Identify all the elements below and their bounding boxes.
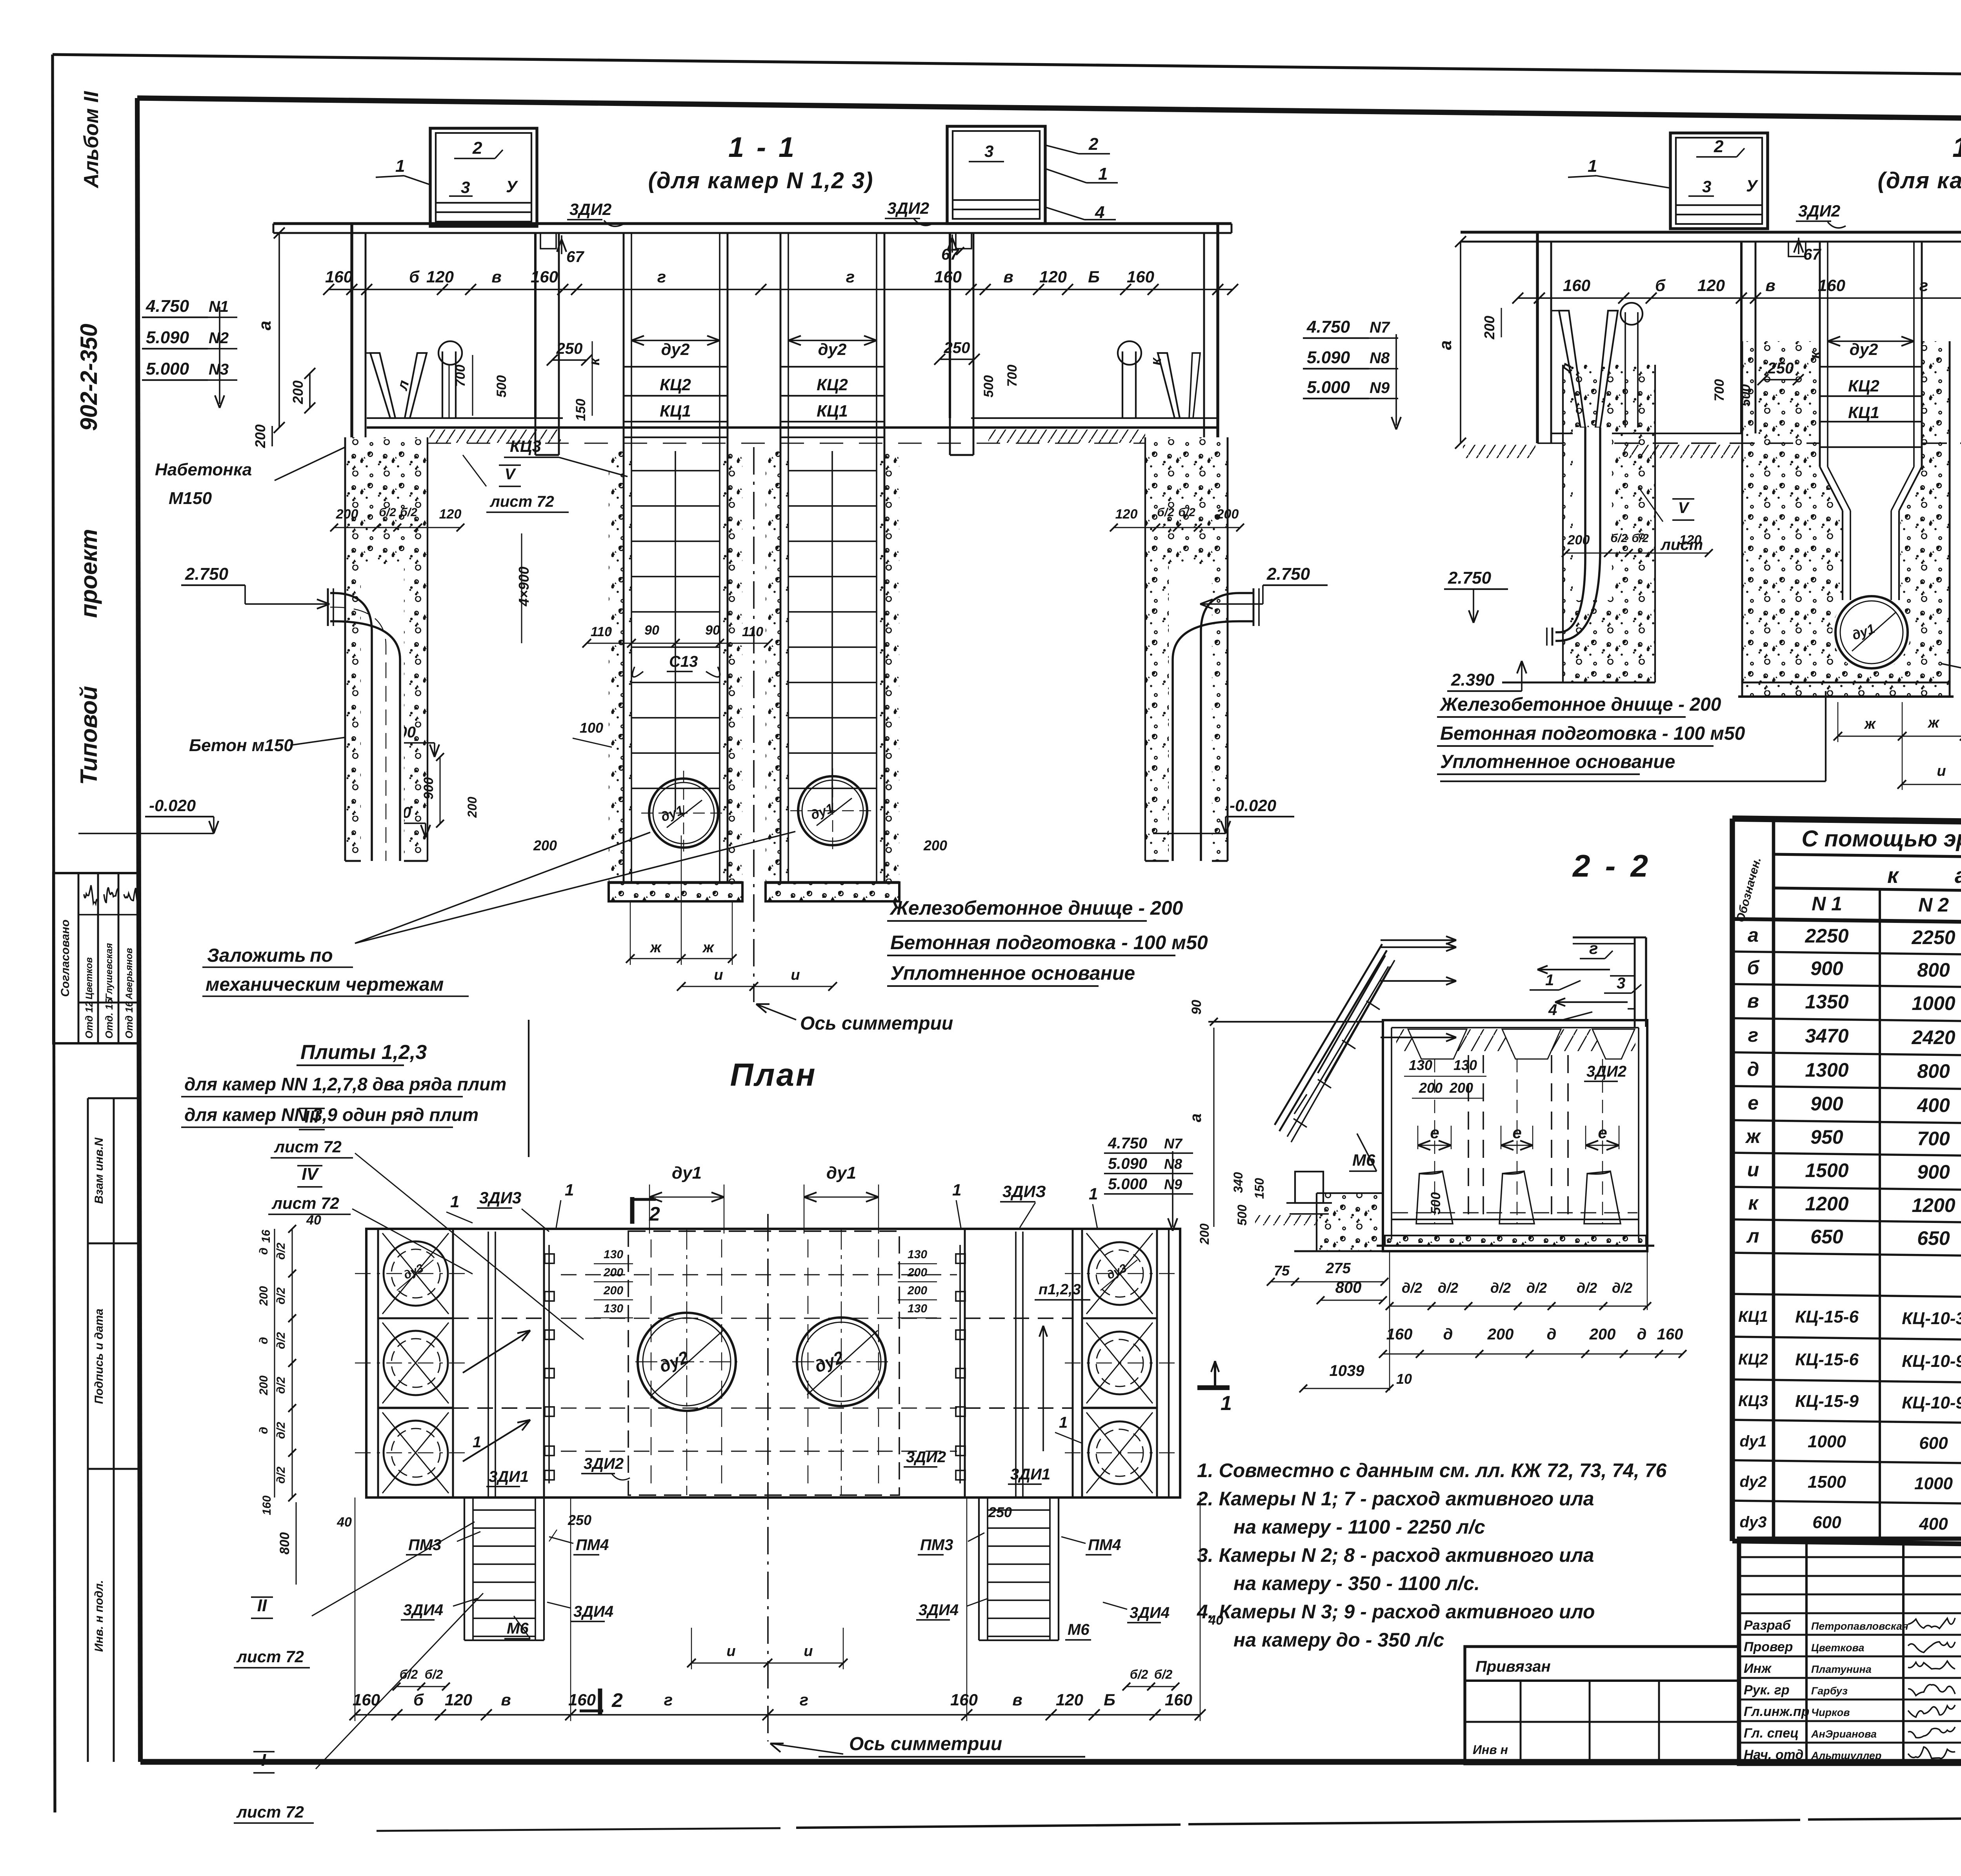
svg-text:902-2-350: 902-2-350	[76, 324, 102, 431]
svg-text:3ДИ2: 3ДИ2	[1586, 1063, 1626, 1080]
svg-text:в: в	[1003, 267, 1013, 286]
svg-text:Б: Б	[1088, 267, 1100, 286]
svg-text:N 2: N 2	[1918, 894, 1949, 916]
svg-text:д: д	[1747, 1058, 1759, 1080]
svg-text:д/2: д/2	[1490, 1280, 1511, 1296]
svg-text:200: 200	[1449, 1080, 1473, 1096]
svg-text:КЦ2: КЦ2	[660, 375, 691, 394]
svg-text:У: У	[1746, 177, 1759, 195]
svg-text:в: в	[501, 1690, 511, 1709]
svg-text:10: 10	[1396, 1371, 1412, 1387]
svg-text:200: 200	[603, 1284, 623, 1297]
svg-text:Ось симметрии: Ось симметрии	[849, 1734, 1002, 1754]
svg-text:150: 150	[1252, 1178, 1266, 1199]
svg-text:д/2: д/2	[275, 1467, 287, 1484]
svg-text:КЦ3: КЦ3	[1738, 1392, 1768, 1410]
svg-text:Аверьянов: Аверьянов	[124, 948, 135, 1000]
svg-text:Инв. н подл.: Инв. н подл.	[93, 1580, 106, 1652]
svg-text:400: 400	[1917, 1094, 1950, 1116]
svg-text:на камеру до - 350 л/с: на камеру до - 350 л/с	[1233, 1629, 1444, 1651]
svg-text:Ось симметрии: Ось симметрии	[800, 1013, 953, 1034]
svg-text:130: 130	[1453, 1057, 1477, 1073]
svg-text:120: 120	[1697, 276, 1725, 295]
svg-text:5.000: 5.000	[1307, 378, 1350, 397]
svg-text:б: б	[1655, 276, 1666, 295]
svg-text:лист 72: лист 72	[236, 1803, 304, 1821]
svg-text:160: 160	[1127, 267, 1154, 286]
svg-text:и: и	[804, 1643, 813, 1659]
svg-text:800: 800	[1917, 1060, 1950, 1082]
svg-text:к: к	[1748, 1192, 1759, 1214]
svg-text:л: л	[1746, 1225, 1759, 1247]
svg-text:900: 900	[1810, 1093, 1843, 1115]
svg-text:700: 700	[453, 365, 468, 387]
svg-text:для камер NN 3,9 один ряд плит: для камер NN 3,9 один ряд плит	[184, 1104, 478, 1125]
svg-text:1: 1	[450, 1192, 459, 1211]
svg-text:Взам инв.N: Взам инв.N	[93, 1137, 106, 1204]
svg-text:г: г	[657, 267, 666, 286]
svg-text:и: и	[1937, 763, 1946, 779]
svg-text:1200: 1200	[1805, 1193, 1848, 1215]
svg-text:б: б	[413, 1690, 424, 1709]
svg-text:2 - 2: 2 - 2	[1572, 848, 1651, 883]
svg-text:N1: N1	[209, 298, 229, 315]
svg-text:КЦ1: КЦ1	[1848, 403, 1879, 422]
svg-text:160: 160	[353, 1690, 380, 1709]
svg-text:б/2: б/2	[1632, 532, 1649, 545]
svg-text:1200: 1200	[1912, 1194, 1955, 1216]
svg-text:Нач. отд: Нач. отд	[1744, 1747, 1803, 1762]
svg-text:3: 3	[1617, 975, 1625, 992]
svg-text:б/2: б/2	[1154, 1667, 1173, 1681]
svg-text:ду2: ду2	[661, 340, 690, 358]
svg-text:Альбом II: Альбом II	[80, 91, 103, 189]
svg-text:III: III	[305, 1107, 319, 1126]
svg-text:160: 160	[1657, 1326, 1683, 1343]
svg-text:и: и	[714, 967, 723, 983]
svg-text:Отд. 15: Отд. 15	[103, 998, 115, 1039]
svg-text:д/2: д/2	[1438, 1280, 1458, 1296]
svg-text:3ДИ4: 3ДИ4	[1130, 1604, 1170, 1621]
svg-text:200: 200	[603, 1266, 623, 1279]
svg-text:У: У	[506, 177, 518, 196]
svg-text:-0.020: -0.020	[149, 796, 196, 815]
svg-text:Цветкова: Цветкова	[1811, 1642, 1865, 1654]
svg-text:лист: лист	[1660, 536, 1703, 553]
svg-text:Инж: Инж	[1744, 1661, 1772, 1676]
svg-text:200: 200	[1487, 1326, 1514, 1343]
svg-text:200: 200	[1589, 1326, 1616, 1343]
svg-text:3ДИ2: 3ДИ2	[1798, 202, 1840, 220]
svg-text:б/2: б/2	[1130, 1667, 1148, 1681]
svg-text:120: 120	[1056, 1690, 1083, 1709]
svg-text:650: 650	[1917, 1227, 1950, 1249]
svg-text:250: 250	[944, 339, 970, 357]
svg-text:160: 160	[325, 267, 353, 286]
svg-text:160: 160	[1563, 276, 1590, 295]
svg-text:1: 1	[1221, 1392, 1232, 1415]
svg-text:1300: 1300	[1805, 1059, 1848, 1081]
svg-text:2. Камеры N 1; 7 - расход акти: 2. Камеры N 1; 7 - расход активного ила	[1197, 1488, 1594, 1510]
svg-text:б: б	[1747, 957, 1760, 979]
svg-text:3. Камеры N 2; 8 - расход акти: 3. Камеры N 2; 8 - расход активного ила	[1197, 1544, 1594, 1566]
svg-text:г: г	[1589, 939, 1598, 957]
svg-text:План: План	[730, 1057, 817, 1093]
svg-text:ж: ж	[1864, 716, 1876, 732]
svg-text:в: в	[1012, 1690, 1022, 1709]
svg-text:г: г	[800, 1690, 808, 1709]
svg-text:проект: проект	[76, 529, 102, 618]
svg-text:67: 67	[566, 248, 584, 266]
svg-text:130: 130	[908, 1248, 927, 1261]
svg-text:Согласовано: Согласовано	[59, 919, 72, 997]
svg-text:N3: N3	[209, 361, 229, 378]
svg-text:130: 130	[908, 1302, 927, 1315]
svg-text:1039: 1039	[1330, 1362, 1365, 1379]
svg-text:1: 1	[1545, 972, 1554, 989]
svg-text:40: 40	[1208, 1613, 1223, 1628]
svg-text:КЦ-15-6: КЦ-15-6	[1795, 1307, 1859, 1326]
svg-text:ПМ4: ПМ4	[576, 1536, 609, 1554]
svg-text:ж: ж	[1745, 1125, 1761, 1147]
svg-text:130: 130	[604, 1248, 623, 1261]
svg-text:V: V	[1678, 499, 1690, 517]
svg-text:1: 1	[952, 1181, 961, 1199]
svg-text:700: 700	[1917, 1128, 1950, 1150]
svg-text:400: 400	[1919, 1514, 1948, 1534]
svg-text:а: а	[1748, 924, 1759, 946]
svg-text:I: I	[261, 1750, 266, 1770]
svg-text:(для камер N 7,8,9): (для камер N 7,8,9)	[1878, 168, 1961, 193]
svg-text:IV: IV	[302, 1165, 319, 1184]
svg-text:3470: 3470	[1805, 1025, 1848, 1047]
svg-text:16: 16	[260, 1230, 273, 1243]
svg-text:д/2: д/2	[275, 1287, 287, 1305]
svg-text:КЦ1: КЦ1	[1738, 1308, 1768, 1325]
svg-text:Уплотненное основание: Уплотненное основание	[1440, 751, 1675, 772]
svg-text:лист 72: лист 72	[236, 1647, 304, 1666]
svg-text:КЦ2: КЦ2	[817, 375, 848, 394]
svg-text:Чирков: Чирков	[1811, 1707, 1850, 1718]
svg-text:100: 100	[580, 720, 603, 736]
svg-text:д/2: д/2	[275, 1377, 287, 1394]
svg-text:160: 160	[568, 1690, 596, 1709]
svg-text:40: 40	[337, 1515, 352, 1530]
svg-text:3ДИ1: 3ДИ1	[1010, 1466, 1050, 1483]
svg-text:2.750: 2.750	[1266, 564, 1310, 584]
svg-text:д/2: д/2	[1402, 1280, 1422, 1296]
svg-text:5.090: 5.090	[146, 328, 189, 347]
svg-text:КЦ2: КЦ2	[1738, 1351, 1768, 1368]
svg-text:V: V	[505, 466, 517, 483]
svg-text:к: к	[1148, 357, 1164, 366]
svg-text:Рук. гр: Рук. гр	[1744, 1683, 1790, 1698]
svg-text:160: 160	[1818, 276, 1845, 295]
svg-text:4×900: 4×900	[516, 566, 532, 606]
svg-text:Платунина: Платунина	[1811, 1663, 1872, 1675]
svg-text:Железобетонное днище - 200: Железобетонное днище - 200	[1439, 694, 1721, 715]
svg-text:в: в	[1765, 276, 1775, 295]
svg-text:Подпись и дата: Подпись и дата	[93, 1308, 106, 1404]
svg-text:д/2: д/2	[275, 1422, 287, 1439]
svg-text:275: 275	[1325, 1260, 1351, 1277]
svg-text:1 - 1: 1 - 1	[1952, 132, 1961, 163]
svg-text:2420: 2420	[1911, 1026, 1955, 1048]
svg-text:500: 500	[981, 375, 996, 398]
svg-text:5.000: 5.000	[146, 359, 189, 378]
svg-text:N9: N9	[1370, 379, 1390, 397]
svg-text:С13: С13	[669, 653, 698, 670]
svg-text:800: 800	[277, 1532, 292, 1555]
svg-text:200: 200	[257, 1286, 270, 1306]
svg-text:Уплотненное основание: Уплотненное основание	[890, 962, 1135, 984]
svg-text:д: д	[1637, 1326, 1647, 1343]
svg-text:Глушевская: Глушевская	[104, 943, 115, 999]
svg-text:2: 2	[1088, 135, 1099, 154]
svg-text:Бетонная подготовка - 100 м50: Бетонная подготовка - 100 м50	[1440, 723, 1745, 744]
svg-text:3: 3	[1702, 177, 1711, 196]
svg-text:160: 160	[260, 1496, 273, 1515]
svg-text:КЦ-10-3: КЦ-10-3	[1902, 1309, 1961, 1328]
svg-text:е: е	[1748, 1092, 1759, 1114]
svg-text:КЦ-10-9: КЦ-10-9	[1902, 1393, 1961, 1412]
svg-text:75: 75	[1274, 1263, 1290, 1279]
svg-text:160: 160	[950, 1690, 978, 1709]
svg-text:на камеру - 350 - 1100 л/с.: на камеру - 350 - 1100 л/с.	[1233, 1572, 1480, 1594]
svg-text:N2: N2	[209, 329, 229, 347]
svg-text:М150: М150	[169, 489, 212, 508]
svg-text:АнЭрианова: АнЭрианова	[1811, 1728, 1877, 1740]
svg-text:а: а	[1187, 1114, 1204, 1122]
svg-text:N 1: N 1	[1812, 893, 1842, 915]
svg-text:и: и	[791, 967, 800, 983]
svg-text:700: 700	[1712, 379, 1727, 402]
svg-text:Отд 16: Отд 16	[123, 1001, 135, 1039]
svg-text:г: г	[846, 267, 855, 286]
svg-text:в: в	[1747, 990, 1759, 1012]
svg-text:в: в	[491, 267, 501, 286]
svg-text:ПМ4: ПМ4	[1088, 1536, 1121, 1554]
svg-text:ж: ж	[702, 939, 715, 956]
svg-text:N7: N7	[1164, 1135, 1183, 1152]
svg-text:б/2: б/2	[400, 1667, 418, 1681]
svg-text:2250: 2250	[1911, 926, 1955, 948]
svg-text:лист 72: лист 72	[271, 1194, 339, 1212]
svg-text:Инв н: Инв н	[1473, 1743, 1508, 1757]
svg-text:340: 340	[1231, 1172, 1245, 1193]
svg-text:ду1: ду1	[826, 1163, 856, 1183]
svg-text:п1,2,3: п1,2,3	[1039, 1281, 1081, 1298]
svg-text:500: 500	[494, 375, 509, 398]
svg-text:1: 1	[1098, 164, 1108, 184]
svg-text:-0.020: -0.020	[1230, 796, 1276, 815]
svg-text:механическим чертежам: механическим чертежам	[206, 974, 444, 995]
svg-text:90: 90	[644, 623, 659, 638]
svg-text:к: к	[586, 357, 603, 366]
svg-text:250: 250	[988, 1504, 1012, 1520]
svg-text:160: 160	[1165, 1690, 1192, 1709]
svg-text:на камеру - 1100 - 2250 л/с: на камеру - 1100 - 2250 л/с	[1233, 1516, 1485, 1538]
svg-text:(для камер N 1,2 3): (для камер N 1,2 3)	[648, 168, 874, 193]
svg-text:200: 200	[290, 380, 306, 404]
svg-text:900: 900	[1810, 957, 1843, 979]
svg-text:ду2: ду2	[1850, 340, 1878, 358]
svg-text:5.000: 5.000	[1108, 1175, 1147, 1193]
svg-text:КЦ3: КЦ3	[510, 437, 541, 455]
svg-text:Отд 12: Отд 12	[83, 1001, 95, 1039]
svg-text:dy3: dy3	[1740, 1514, 1767, 1531]
svg-text:dy1: dy1	[1740, 1433, 1767, 1450]
svg-text:2: 2	[611, 1689, 623, 1711]
svg-text:Гл.инж.пр: Гл.инж.пр	[1744, 1704, 1810, 1719]
svg-text:3ДИЗ: 3ДИЗ	[1002, 1182, 1046, 1201]
svg-text:Гарбуз: Гарбуз	[1811, 1685, 1848, 1697]
svg-text:3ДИ4: 3ДИ4	[919, 1601, 959, 1619]
svg-text:N7: N7	[1370, 319, 1390, 336]
svg-text:3: 3	[461, 178, 470, 197]
svg-text:1 - 1: 1 - 1	[728, 132, 797, 163]
svg-text:150: 150	[573, 399, 588, 421]
svg-text:1: 1	[1588, 156, 1597, 176]
svg-text:200: 200	[252, 424, 268, 448]
svg-text:2: 2	[649, 1203, 660, 1225]
svg-text:1500: 1500	[1805, 1159, 1848, 1181]
svg-text:90: 90	[1189, 1000, 1204, 1015]
svg-text:Плиты 1,2,3: Плиты 1,2,3	[300, 1041, 427, 1064]
svg-text:200: 200	[533, 837, 557, 853]
svg-text:500: 500	[1235, 1205, 1249, 1226]
svg-text:г: г	[664, 1690, 673, 1709]
svg-text:ПМ3: ПМ3	[920, 1536, 953, 1554]
svg-text:800: 800	[1917, 959, 1950, 981]
svg-text:Железобетонное днище - 200: Железобетонное днище - 200	[889, 897, 1183, 919]
svg-text:и: и	[1747, 1159, 1759, 1181]
svg-text:а: а	[255, 321, 275, 330]
svg-text:ду2: ду2	[818, 340, 847, 358]
svg-text:д/2: д/2	[1526, 1280, 1547, 1296]
svg-text:3ДИ3: 3ДИ3	[479, 1188, 521, 1207]
svg-text:КЦ-10-9: КЦ-10-9	[1902, 1352, 1961, 1371]
svg-text:4. Камеры N 3; 9 - расход акти: 4. Камеры N 3; 9 - расход активного ило	[1197, 1601, 1595, 1623]
svg-text:130: 130	[1409, 1057, 1432, 1073]
svg-text:1: 1	[395, 156, 405, 176]
svg-text:900: 900	[1917, 1161, 1950, 1183]
svg-text:Б: Б	[1104, 1690, 1115, 1709]
svg-text:40: 40	[306, 1213, 321, 1228]
svg-text:Заложить: Заложить	[207, 945, 306, 966]
svg-text:С помощью эрлифтов: С помощью эрлифтов	[1802, 826, 1961, 852]
svg-text:950: 950	[1810, 1126, 1843, 1148]
svg-text:1: 1	[565, 1181, 574, 1199]
svg-text:600: 600	[1919, 1434, 1948, 1453]
svg-text:г: г	[1748, 1024, 1759, 1046]
svg-text:3: 3	[984, 142, 993, 160]
svg-text:КЦ1: КЦ1	[660, 402, 691, 420]
svg-text:650: 650	[1810, 1226, 1843, 1248]
svg-text:2250: 2250	[1805, 925, 1848, 947]
svg-text:1000: 1000	[1808, 1432, 1846, 1451]
svg-text:160: 160	[934, 267, 962, 286]
svg-text:КЦ2: КЦ2	[1848, 377, 1879, 395]
svg-text:2: 2	[472, 138, 482, 158]
svg-text:1: 1	[1089, 1185, 1098, 1203]
svg-text:2: 2	[1714, 137, 1724, 156]
svg-text:3ДИ1: 3ДИ1	[489, 1468, 529, 1485]
svg-text:90: 90	[705, 623, 720, 638]
svg-text:200: 200	[1481, 316, 1497, 340]
svg-text:ж: ж	[1927, 715, 1940, 731]
svg-text:ПМ3: ПМ3	[408, 1536, 441, 1554]
svg-text:130: 130	[604, 1302, 623, 1315]
svg-text:1000: 1000	[1912, 992, 1955, 1014]
svg-text:д: д	[257, 1337, 270, 1345]
svg-text:д: д	[1443, 1326, 1453, 1343]
svg-text:200: 200	[465, 797, 479, 818]
svg-text:200: 200	[907, 1284, 927, 1297]
svg-text:200: 200	[1419, 1080, 1443, 1096]
svg-text:д/2: д/2	[275, 1243, 287, 1260]
svg-text:1350: 1350	[1805, 991, 1848, 1013]
svg-text:для камер NN 1,2,7,8 два ряда: для камер NN 1,2,7,8 два ряда плит	[184, 1074, 506, 1094]
svg-text:д/2: д/2	[275, 1332, 287, 1349]
svg-text:д: д	[257, 1427, 270, 1434]
svg-text:160: 160	[1386, 1326, 1413, 1343]
svg-text:200: 200	[1567, 533, 1590, 548]
svg-text:а: а	[1436, 340, 1455, 350]
svg-text:5.090: 5.090	[1108, 1155, 1147, 1172]
svg-text:1500: 1500	[1808, 1472, 1846, 1492]
svg-text:120: 120	[1039, 267, 1067, 286]
svg-text:Типовой: Типовой	[76, 686, 102, 785]
svg-text:Гл. спец: Гл. спец	[1744, 1726, 1799, 1741]
svg-text:200: 200	[907, 1266, 927, 1279]
svg-text:dy2: dy2	[1740, 1473, 1767, 1490]
svg-text:1. Совместно с данным см. лл.: 1. Совместно с данным см. лл. КЖ 72, 73,…	[1197, 1459, 1667, 1481]
svg-text:110: 110	[742, 624, 763, 639]
svg-text:Разраб: Разраб	[1744, 1618, 1791, 1633]
svg-text:лист 72: лист 72	[274, 1137, 342, 1156]
svg-text:120: 120	[426, 267, 454, 286]
svg-text:б/2: б/2	[425, 1667, 443, 1681]
svg-text:по: по	[310, 945, 333, 966]
svg-text:2.750: 2.750	[1448, 568, 1492, 588]
svg-text:200: 200	[257, 1376, 270, 1396]
svg-text:Набетонка: Набетонка	[155, 460, 252, 479]
svg-text:Альтшуллер: Альтшуллер	[1811, 1750, 1881, 1761]
svg-text:КЦ1: КЦ1	[817, 402, 848, 420]
svg-text:ду1: ду1	[672, 1163, 702, 1183]
svg-text:д/2: д/2	[1612, 1280, 1632, 1296]
svg-text:Цветков: Цветков	[84, 957, 95, 999]
svg-text:Провер: Провер	[1744, 1639, 1793, 1654]
svg-text:4.750: 4.750	[146, 297, 189, 316]
svg-text:N8: N8	[1370, 349, 1390, 367]
svg-text:120: 120	[1115, 507, 1138, 522]
svg-text:4.750: 4.750	[1108, 1135, 1147, 1152]
svg-text:Бетонная подготовка - 100 м50: Бетонная подготовка - 100 м50	[890, 932, 1208, 953]
svg-text:4: 4	[1548, 1001, 1557, 1019]
svg-text:д: д	[257, 1248, 270, 1255]
svg-text:1: 1	[1059, 1414, 1068, 1431]
svg-text:Бетон м150: Бетон м150	[189, 736, 293, 755]
svg-text:1: 1	[473, 1434, 481, 1451]
svg-text:1000: 1000	[1914, 1474, 1953, 1493]
svg-text:3ДИ2: 3ДИ2	[584, 1455, 624, 1472]
svg-text:200: 200	[1197, 1223, 1212, 1245]
svg-text:Привязан: Привязан	[1475, 1658, 1551, 1675]
svg-text:700: 700	[1005, 365, 1020, 387]
svg-text:200: 200	[923, 837, 947, 853]
